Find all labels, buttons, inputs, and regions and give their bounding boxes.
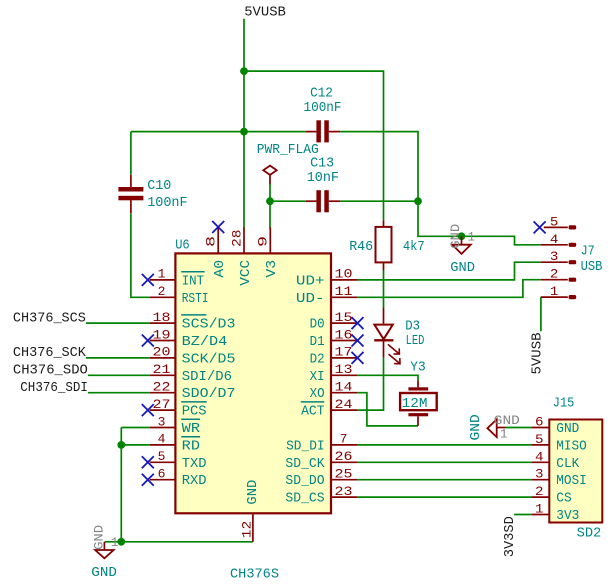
reference C13 xyxy=(310,155,334,171)
wire WR/RD down to GND rail xyxy=(120,428,122,542)
pin name GND xyxy=(245,480,261,505)
pin J15-4 stub xyxy=(532,461,550,463)
junction at PWR_FLAG/V3/C13 xyxy=(266,197,274,205)
svg-text:17: 17 xyxy=(335,345,353,360)
pin 11 stub right xyxy=(331,296,357,298)
pin number 19 xyxy=(153,327,171,342)
svg-text:A0: A0 xyxy=(212,260,228,278)
svg-text:21: 21 xyxy=(153,362,171,377)
pin name SCS/D3 xyxy=(182,317,236,333)
ground symbol (J15 GND) xyxy=(487,419,505,437)
pin 25 stub right xyxy=(331,479,357,481)
pin number 14 xyxy=(335,380,353,395)
svg-text:J7: J7 xyxy=(581,244,595,260)
pin number 5 xyxy=(158,449,166,464)
pin number J7-4 xyxy=(550,232,559,247)
value 100nF xyxy=(147,195,187,211)
no-connect X right xyxy=(352,335,364,347)
svg-text:CS: CS xyxy=(556,491,571,507)
svg-text:CH376_SCS: CH376_SCS xyxy=(13,310,86,326)
svg-text:C12: C12 xyxy=(310,86,333,102)
pin number J15-3 xyxy=(535,467,544,482)
pin number 6 xyxy=(158,467,166,482)
svg-text:5: 5 xyxy=(535,432,544,447)
pin 14 stub right xyxy=(331,392,357,394)
wire SD_DO to MOSI xyxy=(357,479,532,481)
svg-text:28: 28 xyxy=(229,229,244,247)
svg-text:1: 1 xyxy=(158,267,166,282)
svg-text:24: 24 xyxy=(335,397,353,412)
pin number 25 xyxy=(335,467,353,482)
svg-text:3: 3 xyxy=(158,414,166,429)
reference J7 xyxy=(581,244,595,260)
svg-text:25: 25 xyxy=(335,467,353,482)
pin name RD xyxy=(182,438,200,454)
reference J15 xyxy=(553,396,575,412)
pin number 16 xyxy=(335,327,353,342)
svg-text:SD_CK: SD_CK xyxy=(285,456,325,472)
pin number J7-1 xyxy=(550,284,559,299)
pin 3 stub left xyxy=(150,427,176,429)
pin name ACT xyxy=(301,404,325,420)
svg-text:R46: R46 xyxy=(349,239,373,255)
wire 5VUSB vertical to VCC pin 28 xyxy=(243,19,245,229)
pin name XI xyxy=(310,369,325,385)
svg-text:TXD: TXD xyxy=(182,456,207,472)
hidden pin number 1 gray xyxy=(111,536,119,550)
reference U6 xyxy=(175,238,190,254)
pin name D1 xyxy=(310,334,325,350)
value 100nF xyxy=(304,100,342,116)
svg-text:UD-: UD- xyxy=(296,291,325,307)
wire XO pin 14 to crystal bottom xyxy=(357,393,418,426)
pin number 15 xyxy=(335,310,353,325)
pin 6 stub left xyxy=(150,479,176,481)
pin number 21 xyxy=(153,362,171,377)
svg-text:16: 16 xyxy=(335,327,353,342)
svg-text:Y3: Y3 xyxy=(410,359,425,375)
wire XI pin 13 to crystal top xyxy=(357,375,418,380)
label GND xyxy=(91,565,117,581)
pin name V3 xyxy=(264,260,280,278)
pin name SDI/D6 xyxy=(182,369,232,385)
svg-text:J15: J15 xyxy=(553,396,575,412)
net label CH376_SDI xyxy=(20,380,88,396)
pin number 28 xyxy=(229,229,244,247)
pin number 24 xyxy=(335,397,353,412)
svg-text:SD_DI: SD_DI xyxy=(286,438,325,454)
pin name SD_DI xyxy=(286,438,325,454)
label GND xyxy=(450,260,475,276)
pin 4 stub left xyxy=(150,444,176,446)
svg-text:MISO: MISO xyxy=(556,438,587,454)
svg-text:2: 2 xyxy=(550,267,559,282)
pin name UD+ xyxy=(296,273,325,289)
reference D3 xyxy=(405,319,420,335)
pin number 17 xyxy=(335,345,353,360)
hidden pin text GND rotated gray xyxy=(449,224,463,249)
svg-text:18: 18 xyxy=(153,310,171,325)
wire VCC to C10/C12 row xyxy=(131,131,306,133)
overline PCS xyxy=(181,401,207,403)
wire 5VUSB branch to R46 top xyxy=(244,71,384,220)
svg-text:PWR_FLAG: PWR_FLAG xyxy=(257,142,319,158)
pin number J7-2 xyxy=(550,267,559,282)
pin name UD- xyxy=(296,291,325,307)
pin name D0 xyxy=(310,317,325,333)
wire C13 left segment xyxy=(270,200,306,202)
no-connect X J7 pin 5 xyxy=(534,221,546,233)
power label 5VUSB top xyxy=(244,5,286,21)
ground symbol (chip GND) xyxy=(95,542,113,559)
wire C13 right to junction xyxy=(340,200,418,202)
pin 8 stub top xyxy=(217,227,219,253)
pin J15-6 stub xyxy=(532,427,550,429)
pin name INT xyxy=(182,273,204,289)
svg-text:3: 3 xyxy=(535,467,544,482)
pin name SD_DO xyxy=(285,473,324,489)
power flag PWR_FLAG xyxy=(263,166,276,185)
svg-text:LED: LED xyxy=(406,333,425,349)
pin number J7-3 xyxy=(550,249,559,264)
pin 17 stub right xyxy=(331,357,357,359)
pin number 20 xyxy=(153,345,171,360)
svg-text:CH376_SDO: CH376_SDO xyxy=(13,363,88,379)
junction at VCC/R46 branch xyxy=(240,67,248,75)
pin name SD_CK xyxy=(285,456,325,472)
svg-text:SDO/D7: SDO/D7 xyxy=(182,386,236,402)
pin number 2 xyxy=(158,284,166,299)
pin 13 stub right xyxy=(331,374,357,376)
svg-text:BZ/D4: BZ/D4 xyxy=(182,334,228,350)
net label CH376_SCK xyxy=(13,345,87,361)
no-connect X left xyxy=(142,474,154,486)
pin name D2 xyxy=(310,351,325,367)
svg-text:2: 2 xyxy=(158,284,166,299)
svg-text:INT: INT xyxy=(182,273,204,289)
capacitor C13 xyxy=(306,190,340,212)
svg-text:ACT: ACT xyxy=(301,404,325,420)
svg-text:3: 3 xyxy=(550,249,559,264)
pin number 4 xyxy=(158,432,166,447)
pin number 11 xyxy=(335,284,353,299)
reference Y3 xyxy=(410,359,425,375)
no-connect X pin 8 xyxy=(212,221,224,233)
pin number J7-5 xyxy=(550,214,559,229)
wire J15 pin 6 to GND xyxy=(506,427,532,429)
svg-text:6: 6 xyxy=(535,415,544,430)
svg-text:5: 5 xyxy=(158,449,166,464)
pin J15-1 stub xyxy=(532,514,550,516)
reference C10 xyxy=(147,178,171,194)
no-connect X left xyxy=(142,404,154,416)
wire stub to GND symbol bottom-left xyxy=(105,541,122,543)
svg-text:3V3SD: 3V3SD xyxy=(502,516,518,557)
pin number 9 xyxy=(256,236,271,247)
svg-text:27: 27 xyxy=(153,397,171,412)
capacitor C12 xyxy=(306,120,340,142)
pin 28 stub top xyxy=(243,227,245,253)
pin name MISO xyxy=(556,438,587,454)
pin name WR xyxy=(182,421,201,437)
pin name VCC xyxy=(238,260,254,286)
wire junction down to GND and J7 pin 4 xyxy=(418,201,541,245)
wire net CH376_SCK to pin 20 xyxy=(86,357,150,359)
svg-text:CH376_SDI: CH376_SDI xyxy=(20,380,88,396)
value USB xyxy=(581,259,603,275)
wire SD_DI to MISO xyxy=(357,444,532,446)
wire WR pin 3 xyxy=(121,427,150,429)
wire R46 bottom to LED top xyxy=(383,270,385,307)
svg-text:USB: USB xyxy=(581,259,603,275)
pin name MOSI xyxy=(556,473,587,489)
svg-text:1: 1 xyxy=(535,502,544,517)
pin 23 stub right xyxy=(331,496,357,498)
junction at VCC/C12 row xyxy=(240,128,248,136)
pin J15-5 stub xyxy=(532,444,550,446)
wire net CH376_SCS to pin 18 xyxy=(86,322,150,324)
svg-text:11: 11 xyxy=(335,284,353,299)
hidden pin text GND gray xyxy=(494,414,520,428)
svg-text:12: 12 xyxy=(239,521,254,539)
pin 12 stub bottom xyxy=(252,513,254,542)
pin 22 stub left xyxy=(150,392,176,394)
svg-text:SD2: SD2 xyxy=(577,526,602,542)
svg-text:15: 15 xyxy=(335,310,353,325)
svg-text:C10: C10 xyxy=(147,178,171,194)
reference C12 xyxy=(310,86,333,102)
wire net CH376_SDI to pin 22 xyxy=(88,392,150,394)
svg-text:1: 1 xyxy=(550,284,559,299)
svg-text:6: 6 xyxy=(158,467,166,482)
svg-text:RXD: RXD xyxy=(182,473,207,489)
pin name SD_CS xyxy=(285,491,324,507)
svg-text:PCS: PCS xyxy=(182,404,207,420)
svg-text:5VUSB: 5VUSB xyxy=(244,5,286,21)
pin name CS xyxy=(556,491,571,507)
pin number 26 xyxy=(335,449,353,464)
svg-text:1: 1 xyxy=(467,230,475,244)
op-amp U6 CH376S body xyxy=(175,253,331,513)
svg-text:D2: D2 xyxy=(310,351,325,367)
no-connect X right xyxy=(352,352,364,364)
svg-text:SD_DO: SD_DO xyxy=(285,473,324,489)
pin number 7 xyxy=(340,432,348,447)
label GND rotated xyxy=(468,414,484,440)
pin name PCS xyxy=(182,404,207,420)
overline RD xyxy=(181,436,200,438)
wire UD+ pin 10 to J7 pin 3 xyxy=(357,262,541,280)
svg-text:WR: WR xyxy=(182,421,201,437)
svg-text:9: 9 xyxy=(256,236,271,247)
svg-text:5VUSB: 5VUSB xyxy=(529,333,545,375)
pin name RXD xyxy=(182,473,207,489)
svg-text:1: 1 xyxy=(111,536,119,550)
pin number 27 xyxy=(153,397,171,412)
svg-text:26: 26 xyxy=(335,449,353,464)
svg-text:GND: GND xyxy=(245,480,261,505)
wire net CH376_SDO to pin 21 xyxy=(88,374,150,376)
svg-text:SDI/D6: SDI/D6 xyxy=(182,369,232,385)
overline WR xyxy=(181,418,200,420)
power label 5VUSB rotated xyxy=(529,333,545,375)
pin 20 stub left xyxy=(150,357,176,359)
value CH376S xyxy=(230,566,279,582)
svg-text:2: 2 xyxy=(535,484,544,499)
pin 2 stub left xyxy=(150,296,176,298)
junction GND rail xyxy=(117,538,125,546)
label PWR_FLAG xyxy=(257,142,319,158)
pin number 13 xyxy=(335,362,353,377)
svg-text:1: 1 xyxy=(500,427,508,441)
svg-text:22: 22 xyxy=(153,380,171,395)
pin name SCK/D5 xyxy=(182,351,236,367)
no-connect X left xyxy=(142,456,154,468)
LED D3 xyxy=(374,307,400,363)
no-connect X left xyxy=(142,335,154,347)
capacitor C10 xyxy=(118,175,143,213)
svg-text:GND: GND xyxy=(556,421,579,437)
svg-text:GND: GND xyxy=(449,224,463,249)
svg-text:SCS/D3: SCS/D3 xyxy=(182,317,236,333)
svg-text:23: 23 xyxy=(335,484,353,499)
pin J15-3 stub xyxy=(532,479,550,481)
svg-text:14: 14 xyxy=(335,380,353,395)
svg-text:5: 5 xyxy=(550,214,559,229)
svg-text:SD_CS: SD_CS xyxy=(285,491,324,507)
hidden pin text GND rotated gray xyxy=(93,525,107,550)
value SD2 xyxy=(577,526,602,542)
pin number 23 xyxy=(335,484,353,499)
svg-text:V3: V3 xyxy=(264,260,280,278)
svg-text:7: 7 xyxy=(340,432,348,447)
wire PWR_FLAG to V3 pin 9 xyxy=(269,184,271,228)
hidden pin number 1 gray xyxy=(500,427,508,441)
pin 1 stub left xyxy=(150,279,176,281)
junction WR/RD xyxy=(117,441,125,449)
svg-text:100nF: 100nF xyxy=(147,195,187,211)
pin 9 stub top xyxy=(269,227,271,253)
svg-text:VCC: VCC xyxy=(238,260,254,286)
pin 16 stub right xyxy=(331,340,357,342)
junction at C12/C13 right node xyxy=(414,197,422,205)
pin number 1 xyxy=(158,267,166,282)
pin 24 stub right xyxy=(331,409,357,411)
net label CH376_SDO xyxy=(13,363,88,379)
value 10nF xyxy=(307,170,339,186)
svg-text:SCK/D5: SCK/D5 xyxy=(182,351,236,367)
overline ACT xyxy=(301,401,325,403)
svg-text:100nF: 100nF xyxy=(304,100,342,116)
junction at GND tap xyxy=(458,232,466,240)
svg-text:13: 13 xyxy=(335,362,353,377)
pin number J15-4 xyxy=(535,449,544,464)
svg-text:U6: U6 xyxy=(175,238,190,254)
wire C12 right to junction node xyxy=(340,132,418,202)
pin number J15-6 xyxy=(535,415,544,430)
pin number J15-2 xyxy=(535,484,544,499)
svg-text:D0: D0 xyxy=(310,317,325,333)
wire J15 pin 1 to 3V3SD label xyxy=(514,514,532,516)
pin number 8 xyxy=(204,236,219,247)
svg-text:CLK: CLK xyxy=(556,456,580,472)
wire C10 top branch xyxy=(130,132,132,175)
pin 5 stub left xyxy=(150,461,176,463)
net label CH376_SCS xyxy=(13,310,86,326)
pin name RSTI xyxy=(182,291,209,307)
pin name 3V3 xyxy=(556,508,579,524)
pin 18 stub left xyxy=(150,322,176,324)
svg-text:3V3: 3V3 xyxy=(556,508,579,524)
svg-text:GND: GND xyxy=(91,565,117,581)
no-connect X left xyxy=(142,274,154,286)
pin number 12 xyxy=(239,521,254,539)
wire RD pin 4 xyxy=(121,444,150,446)
resistor R46 xyxy=(376,220,392,270)
pin name GND xyxy=(556,421,579,437)
svg-text:XO: XO xyxy=(310,386,325,402)
wire SD_CS to CS xyxy=(357,496,532,498)
svg-text:GND: GND xyxy=(93,525,107,550)
value 12M xyxy=(402,396,428,412)
ground symbol (USB shield GND) xyxy=(452,236,470,254)
svg-text:4: 4 xyxy=(535,449,544,464)
svg-text:XI: XI xyxy=(310,369,325,385)
pin 10 stub right xyxy=(331,279,357,281)
svg-text:12M: 12M xyxy=(402,396,428,412)
pin name CLK xyxy=(556,456,580,472)
pin number 18 xyxy=(153,310,171,325)
svg-text:GND: GND xyxy=(494,414,520,428)
pin name TXD xyxy=(182,456,207,472)
wire J7 pin 1 to 5VUSB label xyxy=(540,297,542,331)
svg-text:GND: GND xyxy=(450,260,475,276)
svg-text:CH376S: CH376S xyxy=(230,566,279,582)
wire UD- pin 11 to J7 pin 2 xyxy=(357,280,541,298)
wire SD_CK to CLK xyxy=(357,461,532,463)
pin 15 stub right xyxy=(331,322,357,324)
pin 26 stub right xyxy=(331,461,357,463)
svg-text:RD: RD xyxy=(182,438,200,454)
pin number J15-1 xyxy=(535,502,544,517)
wire C10 bottom to RSTI pin 2 xyxy=(131,213,150,297)
svg-text:10nF: 10nF xyxy=(307,170,339,186)
reference R46 xyxy=(349,239,373,255)
connector J7 USB xyxy=(541,225,576,299)
overline SCS xyxy=(181,314,206,316)
svg-text:MOSI: MOSI xyxy=(556,473,587,489)
overline INT xyxy=(181,271,204,273)
svg-text:GND: GND xyxy=(468,414,484,440)
pin J15-2 stub xyxy=(532,496,550,498)
wire LED cathode to ACT pin 24 xyxy=(357,358,384,411)
pin number 3 xyxy=(158,414,166,429)
pin 27 stub left xyxy=(150,409,176,411)
svg-text:4: 4 xyxy=(550,232,559,247)
pin number J15-5 xyxy=(535,432,544,447)
svg-text:D1: D1 xyxy=(310,334,325,350)
pin 21 stub left xyxy=(150,374,176,376)
svg-text:19: 19 xyxy=(153,327,171,342)
connector J15 SD2 body xyxy=(549,420,602,523)
pin name A0 xyxy=(212,260,228,278)
svg-text:10: 10 xyxy=(335,267,353,282)
svg-text:20: 20 xyxy=(153,345,171,360)
svg-text:CH376_SCK: CH376_SCK xyxy=(13,345,87,361)
pin name XO xyxy=(310,386,325,402)
svg-text:4: 4 xyxy=(158,432,166,447)
svg-text:RSTI: RSTI xyxy=(182,291,209,307)
